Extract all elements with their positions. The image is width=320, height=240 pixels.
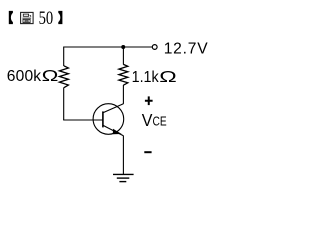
svg-text:CE: CE [153,116,167,129]
svg-text:Ω: Ω [159,69,176,86]
svg-text:50: 50 [39,7,54,28]
svg-text:600k: 600k [7,68,41,85]
svg-text:12.7V: 12.7V [164,40,209,57]
svg-text:1.1k: 1.1k [132,69,160,87]
svg-text:V: V [142,110,153,130]
svg-text:Ω: Ω [42,68,59,85]
